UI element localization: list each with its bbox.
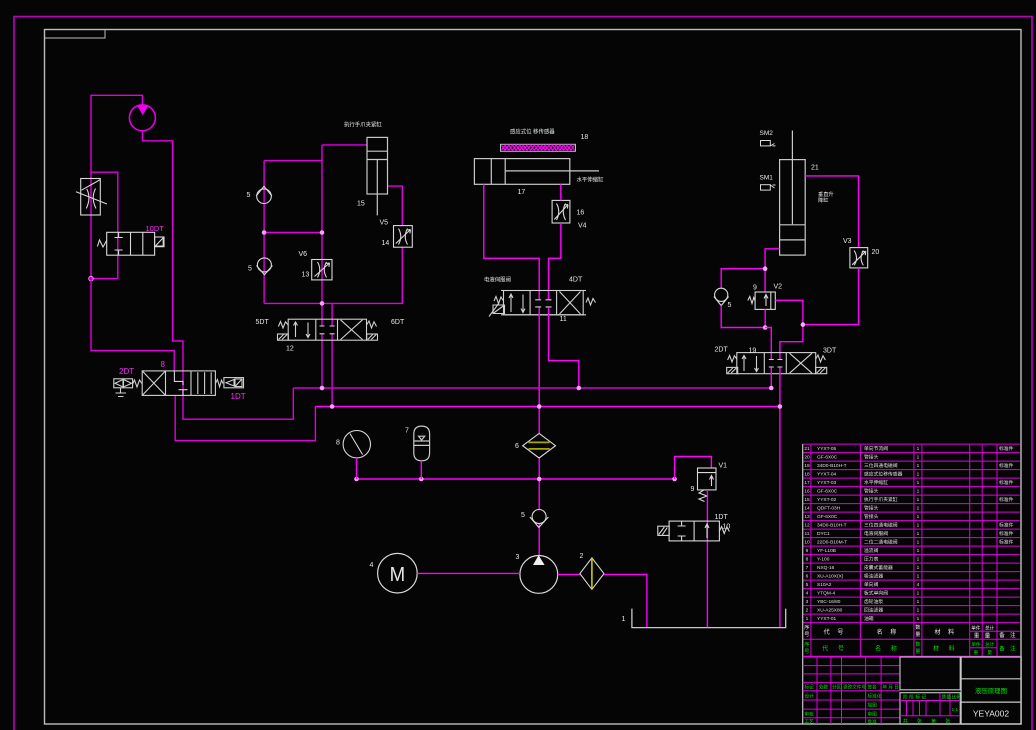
- left revision sub-table grid: [803, 657, 900, 724]
- svg-text:17: 17: [804, 480, 810, 486]
- valve 11 left proportional solenoid + spring: [489, 297, 505, 317]
- valve 8 left solenoid 2DT: [114, 379, 142, 397]
- svg-text:1:1: 1:1: [952, 707, 959, 713]
- wire V3 down to junction: [803, 268, 859, 325]
- svg-text:审核: 审核: [805, 710, 815, 717]
- svg-text:9: 9: [753, 284, 757, 291]
- svg-text:备 注: 备 注: [999, 631, 1017, 639]
- svg-text:1: 1: [917, 591, 920, 597]
- svg-text:设计: 设计: [805, 693, 815, 700]
- svg-text:材 料: 材 料: [934, 628, 957, 636]
- svg-text:3DT: 3DT: [823, 347, 837, 354]
- servo valve 11 body: [501, 291, 586, 315]
- svg-text:1: 1: [917, 463, 920, 469]
- svg-text:15: 15: [357, 200, 365, 207]
- svg-text:电液伺服阀: 电液伺服阀: [484, 276, 511, 284]
- pump 3: [520, 555, 558, 593]
- svg-text:感应式位移传感器: 感应式位移传感器: [864, 471, 903, 478]
- svg-text:11: 11: [560, 316, 567, 323]
- svg-text:13: 13: [804, 514, 810, 520]
- svg-text:二位二通电磁阀: 二位二通电磁阀: [864, 539, 898, 546]
- svg-text:2: 2: [806, 608, 809, 614]
- svg-text:序: 序: [804, 640, 809, 648]
- wire valve 19 to bus2 and tank: [779, 367, 781, 627]
- svg-text:1: 1: [917, 540, 920, 546]
- wire valve 11 left port to pump riser (down): [538, 307, 540, 433]
- BOM header band white: [803, 631, 1020, 656]
- wire pump outlet to valve 8 feed: [142, 131, 293, 419]
- svg-text:水平伸缩缸: 水平伸缩缸: [577, 176, 605, 184]
- svg-text:8: 8: [806, 557, 809, 563]
- svg-text:压力表: 压力表: [864, 556, 879, 563]
- accumulator 7: [414, 426, 430, 461]
- svg-text:标准件: 标准件: [999, 462, 1014, 469]
- svg-text:执行手爪夹紧缸: 执行手爪夹紧缸: [864, 496, 898, 503]
- junction dot: [763, 325, 768, 330]
- svg-text:17: 17: [518, 189, 526, 196]
- svg-text:4: 4: [917, 582, 920, 588]
- wire junction to check valve 5: [721, 269, 765, 288]
- wire cyl17 left port to valve 11: [484, 184, 539, 299]
- wire from node to valve 8 P port: [91, 279, 174, 371]
- valve 8 body: [142, 371, 215, 396]
- svg-text:7: 7: [405, 427, 409, 434]
- svg-text:量: 量: [915, 631, 920, 638]
- svg-text:名 称: 名 称: [877, 628, 900, 636]
- svg-text:SM1: SM1: [760, 174, 774, 181]
- svg-text:标准件: 标准件: [999, 496, 1014, 503]
- svg-text:1: 1: [917, 514, 920, 520]
- svg-text:溢流阀: 溢流阀: [864, 547, 879, 554]
- svg-text:YYXT-01: YYXT-01: [817, 616, 837, 622]
- svg-text:3: 3: [516, 554, 520, 561]
- svg-text:1DT: 1DT: [715, 514, 729, 521]
- check valve 5 (lower): [257, 258, 273, 275]
- svg-text:1: 1: [917, 489, 920, 495]
- svg-text:7: 7: [806, 565, 809, 571]
- svg-text:19: 19: [749, 347, 757, 354]
- svg-text:6: 6: [806, 574, 809, 580]
- svg-text:10DT: 10DT: [146, 224, 165, 233]
- flow control valve F1: [76, 179, 107, 216]
- svg-text:5: 5: [521, 512, 525, 519]
- svg-text:1: 1: [622, 616, 626, 623]
- svg-text:22D0-B10M-T: 22D0-B10M-T: [817, 540, 847, 546]
- svg-text:4: 4: [370, 562, 374, 569]
- svg-text:签名: 签名: [868, 684, 877, 691]
- svg-text:批准: 批准: [868, 718, 878, 725]
- BOM outer white border: [802, 444, 804, 724]
- svg-text:1: 1: [806, 616, 809, 622]
- svg-text:21: 21: [804, 446, 810, 452]
- svg-text:重: 重: [973, 649, 978, 656]
- svg-text:电液伺服阀: 电液伺服阀: [864, 530, 888, 537]
- bus1 return line: [293, 387, 771, 389]
- svg-text:水平伸缩缸: 水平伸缩缸: [864, 479, 888, 486]
- relief valve V1: [698, 468, 717, 502]
- valve 19 body: [737, 353, 816, 374]
- svg-text:5: 5: [248, 266, 252, 273]
- svg-text:标准件: 标准件: [999, 530, 1014, 537]
- svg-text:NXQ-16: NXQ-16: [817, 565, 835, 571]
- svg-text:降缸: 降缸: [818, 196, 828, 204]
- svg-text:管接头: 管接头: [864, 505, 879, 512]
- svg-text:YBC-16/80: YBC-16/80: [817, 599, 841, 605]
- wire cyl21 rod-side port to V3: [805, 176, 858, 248]
- middle stage green labels: [903, 693, 961, 724]
- svg-text:审图: 审图: [868, 710, 878, 717]
- svg-text:V2: V2: [774, 283, 783, 290]
- svg-text:共 张 第 张: 共 张 第 张: [903, 718, 954, 725]
- svg-text:1: 1: [917, 523, 920, 529]
- svg-text:处数: 处数: [819, 684, 829, 691]
- svg-text:16: 16: [804, 489, 810, 495]
- unload valve 10: [658, 521, 730, 541]
- svg-text:10: 10: [804, 540, 810, 546]
- svg-text:管接头: 管接头: [864, 488, 879, 495]
- svg-text:9: 9: [691, 486, 695, 493]
- junction dots: [262, 230, 325, 306]
- svg-text:GF-6X0C: GF-6X0C: [817, 455, 838, 461]
- svg-text:4DT: 4DT: [569, 277, 583, 284]
- svg-text:名 称: 名 称: [875, 645, 901, 653]
- svg-text:标准件: 标准件: [999, 522, 1014, 529]
- svg-text:34D0-B10H-T: 34D0-B10H-T: [817, 463, 847, 469]
- wire junction to valve 19 A port: [765, 328, 771, 360]
- sensor 18 hatched bar: [501, 144, 576, 151]
- svg-text:YYXT-03: YYXT-03: [817, 480, 837, 486]
- svg-text:皮囊式蓄能器: 皮囊式蓄能器: [864, 564, 893, 571]
- svg-text:标准化: 标准化: [868, 693, 882, 700]
- svg-text:YYXT-04: YYXT-04: [817, 472, 837, 478]
- svg-text:21: 21: [811, 164, 819, 171]
- svg-text:质量: 质量: [942, 693, 952, 700]
- throttle valve 16 V4: [552, 200, 570, 223]
- svg-text:3: 3: [806, 599, 809, 605]
- valve 12 left spring + hatch box: [278, 322, 289, 341]
- svg-text:4: 4: [806, 591, 809, 597]
- svg-text:15: 15: [804, 497, 810, 503]
- svg-text:SM2: SM2: [760, 130, 774, 137]
- wire cyl17 right port through throttle 16: [549, 184, 561, 299]
- suction wire pump to filter2: [558, 573, 580, 575]
- SM2 sensor: [760, 130, 776, 146]
- bus2 pressure line: [315, 406, 780, 408]
- svg-text:标准件: 标准件: [999, 445, 1014, 452]
- svg-text:1: 1: [917, 446, 920, 452]
- svg-text:描图: 描图: [868, 701, 878, 708]
- svg-text:管接头: 管接头: [864, 513, 879, 520]
- valve 12 body: [288, 319, 366, 340]
- svg-text:34D0-B10H-T: 34D0-B10H-T: [817, 523, 847, 529]
- wire V2 right side to V3 line: [775, 300, 803, 359]
- svg-text:标记: 标记: [805, 684, 815, 691]
- svg-text:11: 11: [805, 531, 810, 537]
- svg-text:单向阀: 单向阀: [864, 581, 879, 588]
- svg-text:1: 1: [917, 480, 920, 486]
- valve 12 right spring + hatch box: [367, 321, 378, 340]
- frame tab top-left: [45, 30, 106, 39]
- shaft wire motor-pump: [417, 572, 520, 574]
- svg-text:XU-A25X80: XU-A25X80: [817, 608, 843, 614]
- svg-text:工艺: 工艺: [805, 719, 815, 724]
- svg-text:19: 19: [804, 463, 810, 469]
- right title box: [961, 657, 1021, 724]
- wire valve 11 right port to bus1: [549, 307, 579, 388]
- svg-text:Y-100: Y-100: [817, 557, 830, 563]
- svg-text:YF-L10B: YF-L10B: [817, 548, 836, 554]
- svg-text:GF-6X0C: GF-6X0C: [817, 514, 838, 520]
- svg-text:DYC1: DYC1: [817, 531, 830, 537]
- pilot valve V2 9: [748, 292, 776, 309]
- svg-text:1: 1: [917, 472, 920, 478]
- svg-text:8: 8: [161, 360, 166, 369]
- svg-text:13: 13: [302, 272, 310, 279]
- svg-text:代 号: 代 号: [822, 645, 848, 653]
- motor 4: [378, 553, 418, 593]
- svg-text:V3: V3: [843, 238, 852, 245]
- solenoid valve 10DT: [97, 232, 164, 255]
- middle stage sub-table: [900, 693, 960, 724]
- BOM header band green: [804, 640, 1017, 656]
- svg-text:1: 1: [917, 531, 920, 537]
- tank 1: [632, 609, 786, 628]
- valve 8 right solenoid 1DT: [215, 378, 243, 388]
- cylinder 15: [367, 137, 388, 215]
- revision table green labels: [805, 684, 899, 726]
- svg-text:单件: 单件: [971, 625, 981, 632]
- svg-text:代 号: 代 号: [824, 628, 847, 636]
- suction wire filter2 to tank: [604, 574, 647, 627]
- svg-text:号: 号: [804, 648, 809, 655]
- svg-text:液压原理图: 液压原理图: [975, 686, 1007, 695]
- svg-text:S10A2: S10A2: [817, 582, 832, 588]
- svg-text:1: 1: [917, 548, 920, 554]
- cylinder 17: [474, 159, 599, 185]
- svg-text:分区: 分区: [832, 684, 842, 691]
- svg-text:单向节流阀: 单向节流阀: [864, 445, 888, 452]
- svg-text:数: 数: [915, 623, 921, 631]
- svg-text:垂直升: 垂直升: [818, 190, 834, 198]
- svg-text:齿轮油泵: 齿轮油泵: [864, 598, 883, 605]
- svg-text:6DT: 6DT: [391, 319, 405, 326]
- svg-text:V5: V5: [380, 220, 389, 227]
- wire V1 to valve 10 to tank: [706, 490, 708, 627]
- svg-text:备 注: 备 注: [999, 645, 1017, 653]
- throttle valve V5 14: [394, 226, 413, 248]
- svg-text:YYXT-05: YYXT-05: [817, 446, 837, 452]
- svg-text:5: 5: [806, 582, 809, 588]
- svg-text:18: 18: [581, 134, 589, 141]
- svg-text:YEYA002: YEYA002: [973, 709, 1010, 719]
- svg-text:2DT: 2DT: [119, 367, 134, 376]
- wire V2 bottom to junction dot: [764, 309, 766, 327]
- svg-text:三位四通电磁阀: 三位四通电磁阀: [864, 462, 898, 469]
- svg-text:20: 20: [872, 249, 880, 256]
- cylinder 21: [780, 131, 806, 256]
- throttle valve V3 20: [850, 248, 868, 268]
- svg-text:标准件: 标准件: [999, 539, 1014, 546]
- wires valve 12 to buses: [322, 334, 332, 406]
- svg-text:数: 数: [915, 640, 921, 648]
- svg-text:1: 1: [917, 574, 920, 580]
- svg-text:14: 14: [804, 506, 810, 512]
- svg-text:GF-6X0C: GF-6X0C: [817, 489, 838, 495]
- svg-text:5: 5: [728, 302, 732, 309]
- check valve 5 (right): [714, 288, 729, 305]
- wire cyl21 bottom port: [765, 249, 780, 292]
- svg-text:9: 9: [806, 548, 809, 554]
- svg-text:V6: V6: [299, 251, 308, 258]
- svg-text:执行手爪夹紧缸: 执行手爪夹紧缸: [344, 121, 382, 129]
- svg-text:回油滤器: 回油滤器: [864, 607, 883, 614]
- svg-text:阶 段 标 记: 阶 段 标 记: [903, 693, 926, 700]
- svg-text:8: 8: [336, 439, 340, 446]
- svg-text:感应式位 移传感器: 感应式位 移传感器: [510, 128, 555, 136]
- svg-text:1: 1: [917, 599, 920, 605]
- svg-text:5: 5: [247, 192, 251, 199]
- svg-text:M: M: [390, 564, 406, 586]
- junction dot: [801, 322, 806, 327]
- svg-text:重 量: 重 量: [974, 632, 992, 640]
- middle stage box (empty upper): [900, 657, 960, 690]
- pressure gauge 8: [343, 431, 370, 458]
- SM1 sensor: [760, 174, 776, 190]
- wire check valve down to junction: [721, 306, 765, 328]
- filter 2: [580, 558, 604, 590]
- svg-text:14: 14: [382, 240, 390, 247]
- wire valve 8 T port to bus2: [175, 395, 315, 440]
- filter 6: [523, 433, 556, 458]
- svg-text:1: 1: [917, 616, 920, 622]
- svg-text:1: 1: [917, 608, 920, 614]
- svg-text:号: 号: [804, 631, 809, 638]
- wire valve 19 to bus1: [770, 367, 772, 388]
- valve 19 left spring + hatch: [727, 356, 738, 374]
- svg-text:三位四通电磁阀: 三位四通电磁阀: [864, 522, 898, 529]
- svg-text:量: 量: [915, 648, 920, 655]
- accumulator stem wire: [420, 461, 422, 479]
- svg-text:2: 2: [580, 553, 584, 560]
- svg-text:16: 16: [577, 210, 585, 217]
- svg-text:1: 1: [917, 497, 920, 503]
- svg-text:12: 12: [286, 346, 294, 353]
- relief valve V1 pilot wire: [675, 457, 712, 480]
- svg-text:V1: V1: [719, 463, 728, 470]
- svg-text:吸油滤器: 吸油滤器: [864, 573, 883, 580]
- svg-text:1: 1: [917, 565, 920, 571]
- svg-text:1: 1: [917, 506, 920, 512]
- svg-text:油箱: 油箱: [864, 615, 874, 622]
- check valve 5 (upper): [256, 186, 272, 203]
- svg-text:单件: 单件: [971, 641, 981, 648]
- svg-text:更改文件号: 更改文件号: [843, 684, 866, 691]
- svg-text:12: 12: [804, 523, 810, 529]
- svg-text:板式单向阀: 板式单向阀: [864, 590, 888, 597]
- gauge stem wire: [356, 458, 358, 479]
- wire branch to 10DT valve: [91, 172, 118, 278]
- manifold wire: [357, 478, 675, 480]
- manifold dots: [354, 477, 677, 482]
- svg-text:10: 10: [723, 524, 731, 531]
- svg-text:20: 20: [804, 455, 810, 461]
- valve 11 right spring: [586, 298, 596, 305]
- pump C1 (magenta circle with down triangle): [129, 105, 155, 131]
- svg-text:1: 1: [917, 455, 920, 461]
- svg-text:5DT: 5DT: [256, 319, 270, 326]
- pump riser wire: [538, 458, 540, 556]
- check valve 5 (pump): [530, 510, 549, 528]
- wire pump top loop: [91, 95, 142, 279]
- svg-text:总计: 总计: [985, 641, 995, 648]
- bus junction dots: [320, 386, 783, 409]
- svg-text:量: 量: [987, 649, 992, 656]
- svg-text:比例: 比例: [952, 693, 962, 700]
- valve 19 right spring + hatch: [816, 355, 827, 374]
- throttle valve V6 13: [312, 260, 332, 280]
- svg-text:XU-A10X(X): XU-A10X(X): [817, 574, 844, 580]
- svg-text:V4: V4: [578, 223, 587, 230]
- svg-text:6: 6: [515, 443, 519, 450]
- svg-text:管接头: 管接头: [864, 454, 879, 461]
- svg-text:年 月 日: 年 月 日: [883, 684, 899, 691]
- svg-text:序: 序: [804, 623, 809, 631]
- svg-text:总计: 总计: [985, 625, 995, 632]
- wire check valve branch left: [264, 145, 402, 326]
- svg-text:材 料: 材 料: [933, 645, 959, 653]
- svg-text:1: 1: [917, 557, 920, 563]
- node circle: [89, 276, 93, 280]
- svg-text:2DT: 2DT: [715, 347, 729, 354]
- svg-text:YYXT-02: YYXT-02: [817, 497, 837, 503]
- svg-text:YTQM-4: YTQM-4: [817, 591, 835, 597]
- junction dot: [763, 266, 768, 271]
- svg-text:标准件: 标准件: [999, 479, 1014, 486]
- svg-text:QDFT-03H: QDFT-03H: [817, 506, 841, 512]
- svg-text:18: 18: [804, 472, 810, 478]
- svg-text:1DT: 1DT: [231, 392, 246, 401]
